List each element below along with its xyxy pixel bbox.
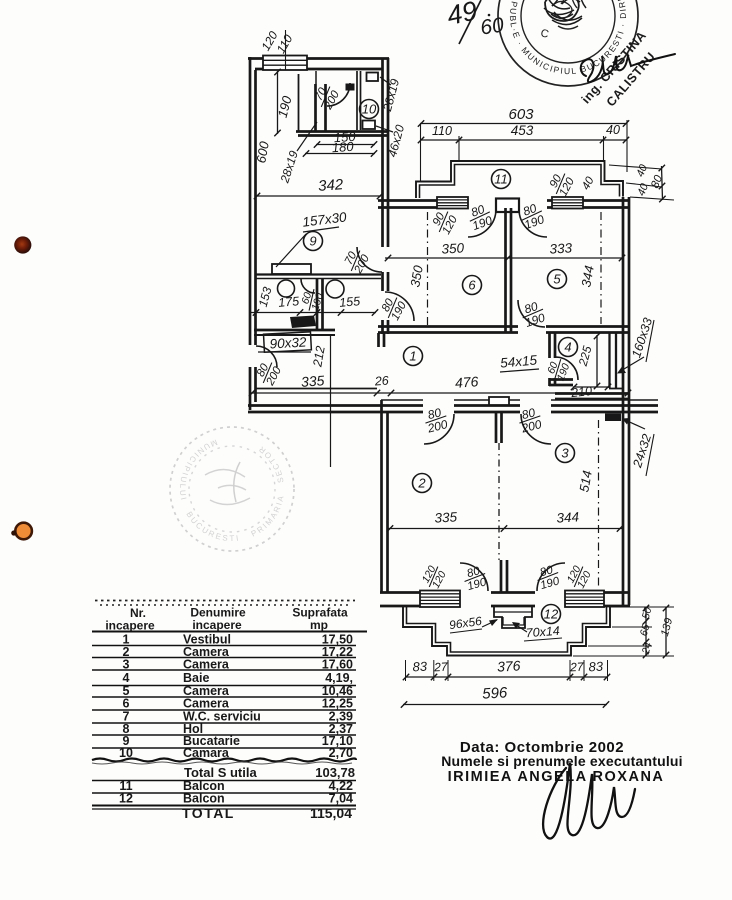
room label 9 Bucatarie bbox=[304, 232, 323, 251]
wall: west wall of rooms 2-3 block bbox=[380, 400, 383, 592]
fixture: pantry bottom shelf box bbox=[363, 121, 376, 130]
label 80/190 balcony6 door bbox=[465, 201, 495, 234]
svg-text:26: 26 bbox=[373, 374, 389, 389]
wall: partition rooms 5/6 bbox=[506, 208, 512, 332]
svg-text:342: 342 bbox=[318, 176, 345, 195]
label 80/200 room3 door bbox=[516, 404, 544, 436]
svg-text:11: 11 bbox=[494, 172, 508, 187]
svg-text:333: 333 bbox=[549, 240, 573, 256]
signature bottom bbox=[543, 763, 635, 839]
svg-text:Baie: Baie bbox=[183, 671, 209, 685]
window: room 5 balcony window bbox=[552, 197, 583, 209]
room label 12 Balcon bbox=[542, 605, 561, 624]
room label 11 Balcon bbox=[492, 170, 511, 189]
svg-text:603: 603 bbox=[508, 106, 534, 123]
door arc 80/200 room 2 bbox=[424, 414, 454, 444]
svg-text:83: 83 bbox=[588, 659, 604, 675]
svg-text:70x14: 70x14 bbox=[525, 624, 560, 640]
stamp: faint circular stamp left bbox=[170, 427, 294, 551]
dim 120/110 top-left bbox=[285, 30, 287, 70]
hole mark orange bbox=[15, 523, 32, 540]
svg-text:incapere: incapere bbox=[192, 618, 242, 632]
wall: corridor bottom / rooms 2-3 top wall bbox=[248, 404, 658, 407]
svg-text:476: 476 bbox=[454, 373, 479, 391]
door arc 80/190 balcony door room 5 bbox=[519, 209, 547, 237]
svg-text:3: 3 bbox=[561, 446, 569, 461]
wall: WC right wall bbox=[317, 279, 323, 330]
wall: pantry 10 left partition bbox=[357, 71, 361, 130]
dim 350 vertical dashed bbox=[427, 212, 429, 326]
room label 1 Vestibul bbox=[404, 347, 423, 366]
svg-text:596: 596 bbox=[482, 684, 509, 702]
door arc 80/190 balcony door room 2 bbox=[460, 563, 488, 591]
door arc 70/200 bath lobby bbox=[327, 83, 350, 106]
wall: bottom wall of rooms 5/6 (corridor top) bbox=[378, 325, 630, 328]
dim 110/453/40 line bbox=[420, 139, 627, 141]
svg-text:Numele si prenumele executantu: Numele si prenumele executantului bbox=[441, 753, 683, 769]
svg-text:350: 350 bbox=[441, 240, 465, 256]
door arc 80/190 room 5 from corridor bbox=[518, 300, 545, 327]
svg-text:27: 27 bbox=[433, 660, 449, 675]
fixture: chimney protrusion into balcony 12 bbox=[494, 607, 532, 628]
svg-text:115,04: 115,04 bbox=[310, 805, 352, 821]
window: room 2 window bbox=[420, 591, 460, 608]
fixture: chimney stub above rooms 2-3 wall bbox=[489, 397, 509, 405]
dim 60/190 room4 door label bbox=[543, 355, 573, 384]
svg-text:453: 453 bbox=[511, 123, 534, 138]
svg-text:83: 83 bbox=[412, 659, 428, 675]
wall: stub between vestibule and hall bbox=[379, 333, 385, 347]
svg-text:210: 210 bbox=[569, 384, 592, 400]
label 80/190 balcony5 door bbox=[517, 200, 547, 233]
dim 60/190 WC door label bbox=[298, 286, 327, 314]
signature top right bbox=[581, 54, 675, 82]
svg-text:4: 4 bbox=[123, 671, 130, 685]
table: room areas bbox=[92, 601, 367, 822]
fixture: pantry top shelf box bbox=[367, 73, 379, 82]
label 80/200 hall door bbox=[253, 358, 285, 389]
svg-text:5: 5 bbox=[553, 272, 561, 287]
svg-text:Camera: Camera bbox=[183, 697, 230, 711]
svg-text:376: 376 bbox=[497, 657, 521, 674]
door arc 80/190 room 6 bbox=[385, 292, 414, 321]
note 90x32 boxed bbox=[264, 332, 312, 352]
label 80/190 balcony2 door bbox=[461, 564, 489, 594]
stamp: circular municipal stamp bbox=[0, 0, 638, 86]
dim right-bottom 139 vertical bbox=[665, 607, 667, 656]
svg-text:180: 180 bbox=[331, 139, 354, 156]
dim 225 vertical bbox=[596, 335, 598, 387]
dim 210 line bbox=[573, 386, 609, 388]
wall: east outer wall bbox=[622, 197, 625, 605]
dim 344 vertical dashed bbox=[600, 212, 602, 324]
svg-text:27: 27 bbox=[569, 660, 585, 675]
door arc 80/190 balcony door room 6 bbox=[468, 209, 496, 237]
dim 180 line bbox=[305, 153, 375, 155]
svg-text:mp: mp bbox=[310, 618, 328, 632]
door arc 60/190 room 4 bbox=[555, 357, 578, 380]
wall: room 4 bottom wall bbox=[555, 392, 629, 395]
label 70/200 kitchen door bbox=[341, 246, 373, 277]
fixture: toilet (dark) bbox=[290, 316, 316, 329]
wall: partition rooms 2/3 upper stub bbox=[496, 413, 502, 443]
window: room 3 window bbox=[565, 591, 604, 608]
wall: room 4 left wall bbox=[548, 333, 551, 386]
wall: pillar between balcony doors bbox=[496, 199, 519, 213]
door arc 60/190 WC bbox=[301, 279, 315, 293]
svg-text:344: 344 bbox=[556, 509, 579, 525]
dim 342 line bbox=[256, 195, 381, 197]
svg-text:335: 335 bbox=[434, 509, 458, 525]
svg-text:9: 9 bbox=[309, 234, 316, 249]
door arc 80/200 room 3 bbox=[521, 414, 551, 444]
wall: right wall of kitchen block bbox=[381, 58, 384, 334]
balcony 12 outline bbox=[403, 607, 610, 656]
svg-text:7,04: 7,04 bbox=[329, 792, 353, 806]
svg-text:Balcon: Balcon bbox=[183, 792, 225, 806]
fixture: sink basin right bbox=[326, 280, 344, 298]
dim 335/26/476 corridor line bbox=[250, 392, 629, 394]
wall: inner bottom line of hall 8 bbox=[256, 388, 377, 390]
wall: duct shaft in room 4 bbox=[610, 333, 617, 388]
dim 335/344 rooms line bbox=[387, 528, 623, 530]
label 90/120 window6 bbox=[429, 207, 461, 238]
dim 350/333 line bbox=[385, 257, 623, 259]
svg-text:2: 2 bbox=[417, 476, 426, 491]
room label 10 Camara bbox=[360, 100, 379, 119]
label 80/190 balcony3 door bbox=[534, 563, 562, 593]
dim 190 vertical bbox=[277, 71, 279, 134]
label 90/120 window5 bbox=[546, 169, 578, 200]
wall: partition rooms 2/3 lower stub bbox=[501, 560, 507, 592]
label 120/120 left bbox=[419, 562, 450, 592]
svg-text:TOTAL: TOTAL bbox=[182, 805, 235, 821]
label 80/200 room2 door bbox=[422, 404, 450, 436]
label 80/190 room5 door bbox=[518, 298, 547, 330]
fixture: sink basin left bbox=[278, 280, 295, 297]
window: room 6 balcony window bbox=[437, 197, 468, 209]
wall: room 4 bottom-left notch bbox=[549, 378, 573, 381]
wall: bath/pantry sub-block bottom wall bbox=[296, 130, 388, 133]
wall: WC bottom wall bbox=[254, 329, 335, 332]
label 80/190 room6 door bbox=[378, 293, 410, 324]
label 120/120 right bbox=[564, 562, 595, 592]
room label 2 Camera bbox=[413, 474, 432, 493]
svg-text:12: 12 bbox=[544, 607, 559, 622]
wall: partition rooms 2/3 dashed mid bbox=[498, 443, 500, 560]
dim 603 line bbox=[420, 123, 627, 125]
wall: bath left partition bbox=[298, 74, 300, 131]
room label 4 Baie bbox=[559, 338, 578, 357]
dim 153/175/155 line bbox=[250, 312, 376, 314]
svg-text:Total S utila: Total S utila bbox=[184, 765, 257, 780]
ext lines bottom right bbox=[573, 607, 674, 656]
svg-text:175: 175 bbox=[278, 294, 300, 310]
dim top-right 40/40/80 bbox=[609, 165, 674, 200]
svg-text:incapere: incapere bbox=[105, 619, 155, 633]
svg-text:1: 1 bbox=[409, 349, 416, 364]
svg-text:90x32: 90x32 bbox=[269, 335, 307, 352]
wall: left outer wall of kitchen block bbox=[249, 57, 252, 410]
room label 6 Camera bbox=[463, 276, 482, 295]
dim 212 vertical bbox=[330, 336, 332, 467]
dim 150 line bbox=[316, 144, 375, 146]
svg-text:155: 155 bbox=[339, 294, 361, 310]
svg-text:10: 10 bbox=[362, 102, 377, 117]
fixture: 24x32 duct (dark fill) below top wall bbox=[605, 414, 621, 422]
dim 514 vertical dashed bbox=[598, 420, 600, 588]
wall: top wall of kitchen block bbox=[248, 57, 389, 60]
wall: partition between bath and pantry lobby bbox=[316, 84, 326, 131]
svg-text:4: 4 bbox=[564, 340, 571, 355]
wall: bottom wall of rooms 2-3 block bbox=[380, 591, 630, 594]
svg-text:6: 6 bbox=[123, 697, 130, 711]
dim 83/27/376/27/83 line bbox=[405, 676, 608, 678]
balcony 11 outline bbox=[416, 161, 623, 198]
hole mark dark red bbox=[0, 0, 1, 1]
svg-text:12: 12 bbox=[119, 792, 133, 806]
door arc 80/190 balcony door room 3 bbox=[537, 563, 565, 591]
svg-text:12,25: 12,25 bbox=[322, 697, 353, 711]
room label 3 Camera bbox=[556, 444, 575, 463]
window: top-left window on kitchen block bbox=[263, 56, 307, 71]
svg-text:110: 110 bbox=[432, 124, 452, 138]
fixture: shaft box in bath bbox=[346, 84, 355, 91]
fixture: kitchen counter bbox=[272, 264, 311, 274]
svg-text:103,78: 103,78 bbox=[315, 765, 355, 780]
wall: top wall of rooms 5/6 block bbox=[378, 199, 630, 202]
dim right-bottom 24/65/50 vertical bbox=[645, 607, 647, 656]
door arc 70/200 kitchen-corridor bbox=[357, 247, 382, 272]
svg-text:6: 6 bbox=[468, 278, 476, 293]
svg-text:4,19,: 4,19, bbox=[325, 671, 353, 685]
dim 596 line bbox=[403, 704, 607, 706]
door arc 80/200 hall entry bbox=[256, 346, 277, 367]
room label 5 Camera bbox=[548, 270, 567, 289]
label 70/200 bath door bbox=[311, 82, 343, 113]
svg-text:40: 40 bbox=[606, 123, 620, 137]
svg-text:335: 335 bbox=[300, 372, 325, 390]
